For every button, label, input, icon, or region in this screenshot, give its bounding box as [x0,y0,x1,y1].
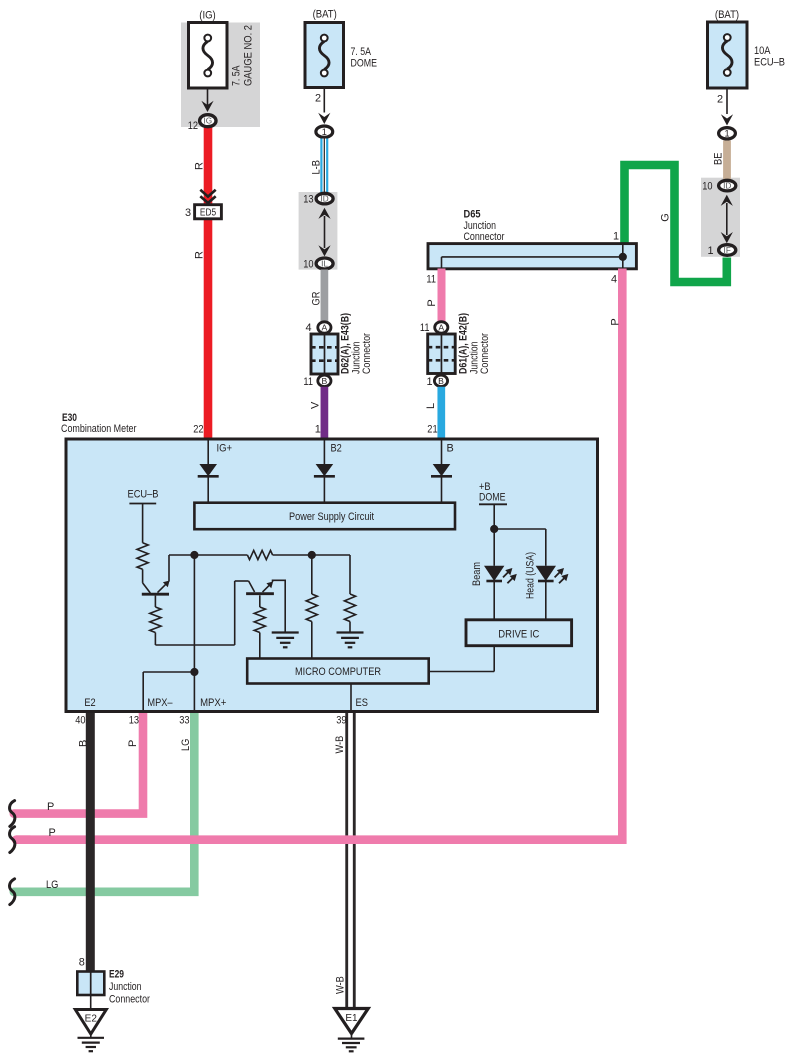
svg-text:P: P [127,740,139,747]
svg-text:10A: 10A [754,45,771,57]
svg-text:B: B [77,740,89,747]
svg-text:4: 4 [611,274,617,286]
svg-text:ECU–B: ECU–B [128,489,159,501]
svg-text:21: 21 [427,424,437,436]
svg-text:1: 1 [613,231,619,243]
svg-text:LG: LG [180,739,192,751]
svg-text:P: P [426,299,438,306]
svg-text:GAUGE NO. 2: GAUGE NO. 2 [243,25,255,86]
svg-text:MPX+: MPX+ [200,697,226,709]
svg-text:E2: E2 [85,1014,98,1025]
svg-text:10: 10 [303,258,313,270]
svg-text:DOME: DOME [479,492,506,504]
svg-text:ID: ID [723,182,731,191]
svg-text:ES: ES [356,697,368,709]
svg-text:E1: E1 [345,1013,358,1024]
svg-text:Combination Meter: Combination Meter [61,423,137,435]
svg-text:IL: IL [321,259,328,268]
svg-text:1: 1 [322,127,327,137]
svg-text:E29: E29 [109,969,124,981]
svg-text:IG+: IG+ [217,443,233,455]
svg-text:(BAT): (BAT) [715,9,739,21]
svg-text:Power Supply Circuit: Power Supply Circuit [289,511,374,523]
svg-text:1: 1 [724,129,729,139]
svg-text:G: G [660,213,672,221]
svg-text:P: P [49,827,56,839]
svg-text:11: 11 [426,274,436,286]
svg-text:40: 40 [75,715,85,727]
svg-text:DOME: DOME [351,58,378,70]
svg-text:2: 2 [717,94,723,106]
svg-text:39: 39 [336,715,346,727]
svg-text:(BAT): (BAT) [313,9,337,21]
svg-text:Connector: Connector [479,333,491,374]
svg-text:1: 1 [315,424,321,436]
svg-text:Junction: Junction [109,981,142,993]
svg-text:V: V [310,401,322,409]
svg-text:GR: GR [311,291,323,305]
svg-text:33: 33 [179,715,189,727]
svg-text:MICRO COMPUTER: MICRO COMPUTER [295,666,381,678]
svg-text:11: 11 [303,376,313,388]
svg-text:L: L [425,403,437,409]
svg-text:D65: D65 [464,209,481,221]
svg-text:L-B: L-B [311,160,323,174]
svg-text:BE: BE [713,153,725,165]
svg-text:DRIVE IC: DRIVE IC [498,629,539,641]
svg-text:12: 12 [188,120,198,132]
svg-text:Junction: Junction [464,220,497,232]
svg-text:22: 22 [193,424,203,436]
svg-text:ECU–B: ECU–B [754,57,785,69]
svg-text:W-B: W-B [335,976,347,994]
svg-text:R: R [194,162,206,170]
svg-text:B: B [438,376,444,386]
svg-text:R: R [194,251,206,259]
svg-text:(IG): (IG) [199,10,216,22]
svg-text:3: 3 [185,207,191,219]
svg-text:ED5: ED5 [200,208,217,219]
svg-text:Beam: Beam [471,562,483,586]
svg-text:13: 13 [303,194,313,206]
svg-text:A: A [438,323,444,333]
svg-text:E2: E2 [84,697,95,709]
svg-text:7. 5A: 7. 5A [351,46,372,58]
svg-text:1: 1 [426,376,432,388]
svg-text:W-B: W-B [334,736,346,754]
svg-text:Head (USA): Head (USA) [525,552,537,599]
svg-text:7. 5A: 7. 5A [231,65,243,86]
svg-text:4: 4 [305,322,311,334]
svg-text:P: P [609,318,621,325]
svg-text:P: P [47,801,54,813]
svg-text:IG: IG [203,117,212,126]
svg-text:MPX–: MPX– [147,697,173,709]
svg-text:13: 13 [129,715,139,727]
svg-text:10: 10 [702,180,712,192]
svg-text:Connector: Connector [361,333,373,374]
svg-text:LG: LG [46,879,58,891]
svg-text:B: B [322,376,328,386]
svg-text:IF: IF [724,246,731,255]
svg-text:Connector: Connector [464,231,505,243]
svg-text:2: 2 [315,93,321,105]
svg-text:A: A [322,323,328,333]
svg-text:1: 1 [707,245,713,257]
svg-text:B2: B2 [331,443,342,455]
svg-text:B: B [447,443,454,455]
svg-text:ID: ID [321,195,329,204]
svg-text:8: 8 [79,957,85,969]
svg-text:Connector: Connector [109,993,150,1005]
svg-text:11: 11 [420,322,430,334]
